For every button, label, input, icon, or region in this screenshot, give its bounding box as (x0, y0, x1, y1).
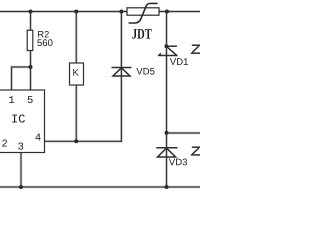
pin label 2 (2, 139, 7, 146)
thermistor JDT body (127, 8, 159, 15)
label VD1 (170, 58, 188, 65)
label VD3 (169, 158, 187, 165)
node top rail / JDT right (165, 10, 169, 14)
pin label 1 (9, 96, 14, 103)
wire pin 1 vertical (11, 67, 13, 90)
node bottom rail / VD3 column (165, 185, 169, 189)
node mid tap (165, 131, 169, 135)
pin label 3 (18, 142, 23, 149)
IC box (0, 90, 45, 153)
node top rail / R2 (29, 10, 33, 14)
wire VD1-VD3 column (166, 12, 168, 188)
wire halo layer (0, 12, 200, 188)
wire K bottom lead (75, 85, 77, 141)
node R2 / pin1 branch (29, 65, 33, 69)
label VD5 (136, 68, 154, 75)
wire VD5 column (120, 12, 122, 142)
label R2 (38, 31, 49, 37)
wire bottom rail (0, 186, 200, 188)
label IC (12, 114, 25, 122)
diode VD2 partial at right edge (191, 45, 200, 53)
node VD1 top (164, 44, 168, 48)
node K / pin4 wire (74, 139, 78, 143)
label K (73, 69, 78, 76)
diode VD1 (158, 46, 178, 56)
wire R2 bottom lead to pin 5 (30, 51, 32, 91)
wire node A to pin 1 horizontal (12, 66, 31, 68)
label JDT (132, 29, 151, 39)
node bottom rail / pin3 (19, 185, 23, 189)
wire top rail left (0, 11, 127, 13)
wire top rail right of JDT (159, 11, 200, 13)
thermistor JDT curve (129, 3, 158, 23)
wire mid tap to right edge (167, 132, 201, 134)
diode VD3 (156, 148, 177, 157)
resistor R2 body (27, 30, 33, 50)
wire K top lead (75, 12, 77, 64)
node top rail / VD5 (119, 10, 123, 14)
relay coil K box (70, 63, 84, 85)
node top rail / K (74, 10, 78, 14)
diode VD5 (112, 68, 132, 77)
wire pin 3 stub (20, 153, 22, 188)
wire R2 top lead (30, 12, 32, 31)
diode VD4 partial at right edge (191, 147, 200, 155)
pin label 5 (28, 96, 33, 103)
label 560 (37, 39, 52, 46)
pin label 4 (35, 134, 40, 141)
wire pin 4 horizontal (45, 140, 122, 142)
